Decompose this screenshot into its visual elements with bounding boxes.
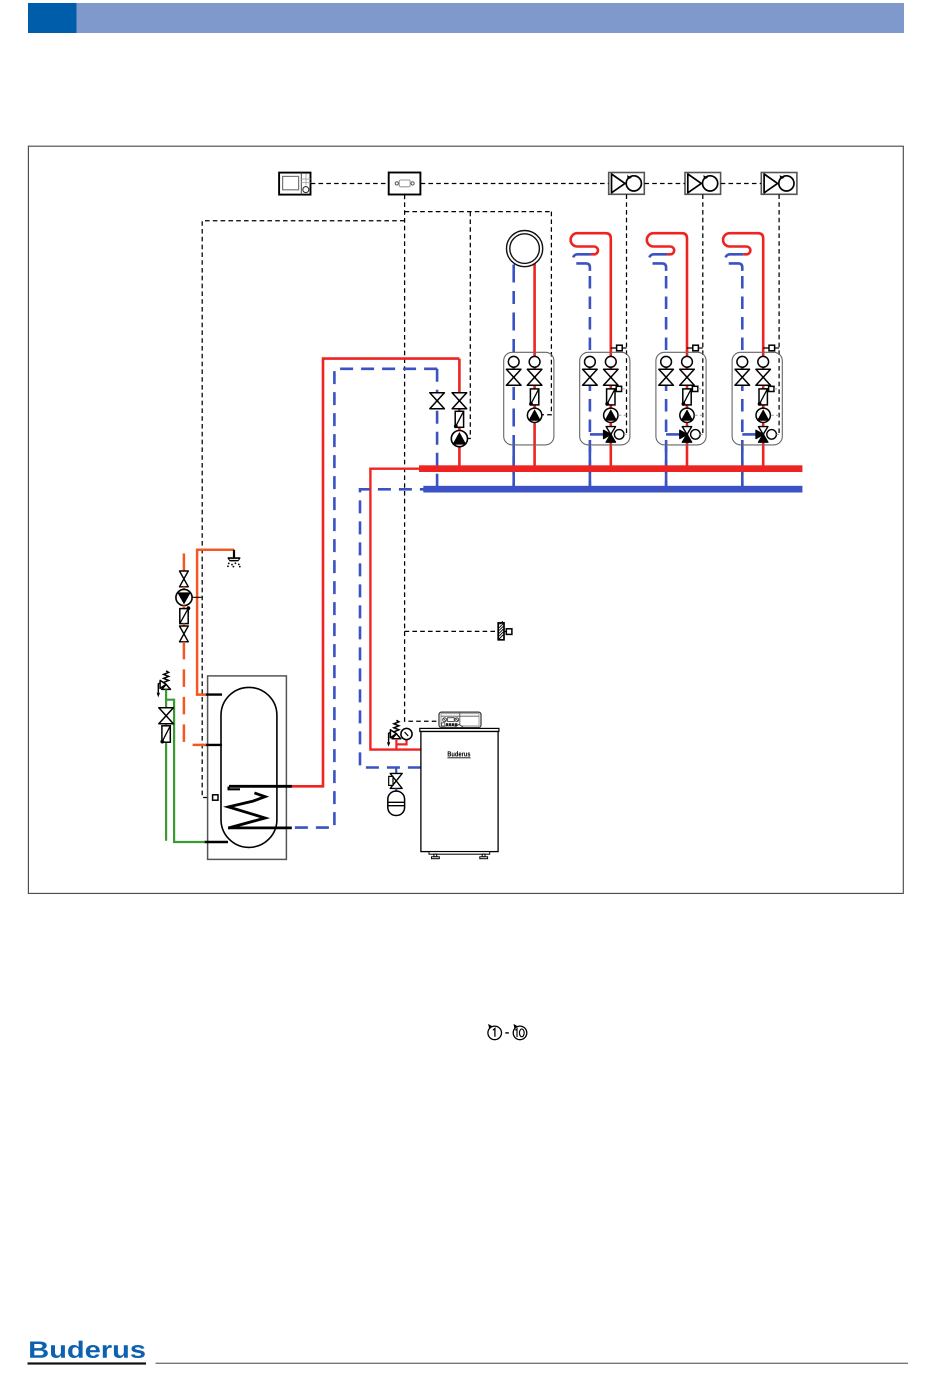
outdoor wall sensor [498,621,512,640]
mixer module MM100 #1 [609,173,645,195]
heat exchanger coil [228,793,265,828]
wire: blue branch to mixer circuit 3 [666,433,680,436]
wire: circulation pump stub [183,587,186,590]
mixer actuator circuit 2 [614,430,624,440]
wire to boiler-loop pump [468,212,471,439]
mixer module MM100 #2 [685,173,721,195]
blue return manifold [423,486,802,493]
pump circuit 2 [604,408,618,422]
wire bus right branch [405,211,552,213]
three-way mixing valve circuit 4 [756,427,768,443]
wire: circuit 4 return to manifold [741,447,744,486]
circulation check valve [180,606,191,623]
cold water shutoff valve [159,708,174,724]
wire: circuit 2 return to manifold [589,447,592,486]
wire: blue branch to mixer circuit 2 [590,433,604,436]
wire: circuit 3 supply column [686,350,689,466]
valve supply circuit 1 [527,369,542,385]
radiator heating circuit 3 supply coil [647,233,687,352]
check valve circuit 1 [529,389,539,406]
pump group box circuit 4 [732,352,782,445]
wire bus left branch [202,221,404,798]
wire: DHW to tank elbow [197,694,206,695]
valve return circuit 2 [583,369,598,385]
wire: safety valve stub [396,739,406,750]
cold water check valve [160,726,170,744]
wire: pump control link [192,596,201,598]
storage cylinder outer [208,676,287,860]
valve on boiler supply [452,393,467,409]
wire: circulation elbow [193,744,206,747]
valve supply circuit 4 [756,369,771,385]
pump boiler loop [451,431,467,447]
wire gateway down to boiler [405,195,439,722]
valve return circuit 3 [659,369,674,385]
balancing connector circuit 4 [763,386,779,391]
wire: gray tap pump circuit 4 [771,414,779,416]
wire gateway to MM100 #1 [421,183,609,185]
wire: circuit 2 return (dashed blue) [573,254,591,486]
three-way mixing valve circuit 2 [604,427,616,443]
coil top connection [229,786,292,789]
wire: circuit 2 supply column [609,350,612,466]
tank DHW outlet stub [205,693,222,695]
boiler foot left [432,854,440,859]
valve supply circuit 2 [604,369,619,385]
valve return circuit 4 [735,369,750,385]
wire: boiler loop return column (dashed) [436,369,439,490]
expansion vessel [388,788,405,815]
controller RC310 [279,173,310,195]
pump group box circuit 2 [580,352,630,445]
wire: circuit 1 supply column [533,264,536,466]
thermometer return circuit 3 [661,356,672,367]
pump group box circuit 3 [656,352,706,445]
wire: DHW circulation upper [183,553,186,571]
logo underline [28,1362,147,1364]
wire: circulation stub [183,624,186,627]
thermometer return circuit 4 [737,356,748,367]
pump group box circuit 1 [504,352,554,445]
tank cold water stub [204,841,228,843]
mixer actuator circuit 4 [767,430,777,440]
valve return circuit 1 [506,369,521,385]
thermometer supply circuit 2 [605,356,616,367]
wire: circuit 3 return to manifold [665,447,668,486]
expansion vessel stub [395,768,397,774]
wire: cold water branch [166,700,205,842]
thermometer return circuit 1 [508,356,519,367]
valve supply circuit 3 [680,369,695,385]
consumer circle circuit 1 [506,231,542,267]
pump circuit 4 [756,408,770,422]
wire: circuit 3 return (dashed blue) [649,254,667,486]
wire MM100 #2 to circuit 3 [702,194,704,434]
check valve boiler loop [454,411,464,428]
boiler foot right [480,854,488,859]
wire: circulation return (dashed) [183,642,186,745]
boiler label Buderus [447,751,470,758]
boiler control panel [439,712,481,727]
storage cylinder vessel [221,687,277,847]
pump circuit 1 [527,408,541,422]
circulation pump [176,589,192,605]
wire: boiler loop supply column [458,359,461,466]
wire: circuit 1 return column [512,265,515,487]
supply sensor circuit 2 [611,345,627,351]
supply sensor circuit 3 [687,345,703,351]
wire: blue branch to mixer circuit 4 [742,433,756,436]
wire controller to gateway [311,183,389,185]
tank circulation stub [205,744,222,746]
wire: gray tap pump circuit 2 [618,414,626,416]
red manifold overdraw [419,465,802,472]
thermometer supply circuit 1 [529,356,540,367]
valve on boiler return [430,393,445,409]
balancing connector circuit 3 [687,386,703,391]
check valve circuit 2 [605,389,615,406]
thermometer supply circuit 4 [758,356,769,367]
Buderus logo [30,1341,145,1358]
mixer actuator circuit 3 [691,430,701,440]
cap valve expansion vessel [389,773,403,788]
wire: red supply boiler riser [370,469,421,750]
header dark blue square [28,3,77,33]
wire: gray tap actuator circuit 3 [700,433,703,435]
wire: gray tap actuator circuit 4 [776,433,779,435]
tank temperature sensor [213,795,218,800]
item marker 10 [513,1024,527,1040]
wire to circuit 1 pump [542,212,552,415]
wire: DHW hot water line [197,550,234,695]
wire MM100 #1 to circuit 2 [626,194,628,434]
red supply manifold [419,465,802,472]
wire: circuit 4 return (dashed blue) [726,254,744,486]
wire: circuit 4 supply column [762,350,765,466]
header light blue bar [77,3,905,33]
wire: gray tap actuator circuit 2 [624,433,627,435]
wire: circuit 1 return to manifold [512,447,515,486]
radiator heating circuit 2 supply coil [571,233,611,352]
shower tap [227,550,241,568]
check valve circuit 3 [682,389,692,406]
coil bottom connection [228,827,292,830]
wire to outdoor sensor [405,630,498,632]
diagram frame [28,146,903,893]
boiler body [420,728,499,854]
balancing connector circuit 2 [611,386,627,391]
wire: cold water main [165,690,167,841]
blue manifold overdraw [423,486,802,493]
wire: circulation mid stub [183,606,186,609]
supply sensor circuit 4 [763,345,779,351]
wire MM100 #3 to circuit 4 [778,194,780,434]
three-way mixing valve circuit 3 [680,427,692,443]
thermometer supply circuit 3 [682,356,693,367]
dash between markers [505,1032,509,1034]
wire: gray tap pump circuit 3 [695,414,703,416]
wire: blue return boiler riser (dashed) [360,489,424,767]
check valve circuit 4 [758,389,768,406]
circulation valve upper [180,571,189,587]
wire: red DHW loading supply [289,359,459,787]
circulation valve lower [180,626,189,642]
footer rule [156,1363,909,1364]
pump circuit 3 [680,408,694,422]
pressure gauge [401,728,412,739]
wire MM100 #1 to #2 [644,183,685,185]
gateway module [389,173,421,195]
safety valve boiler [387,720,401,747]
radiator heating circuit 4 supply coil [723,233,763,352]
safety valve cold water [157,671,171,698]
mixer module MM100 #3 [761,173,797,195]
item marker 1 [488,1024,502,1040]
thermometer return circuit 2 [585,356,596,367]
wire MM100 #2 to #3 [721,183,762,185]
wire: blue DHW loading return (dashed) [292,369,438,828]
